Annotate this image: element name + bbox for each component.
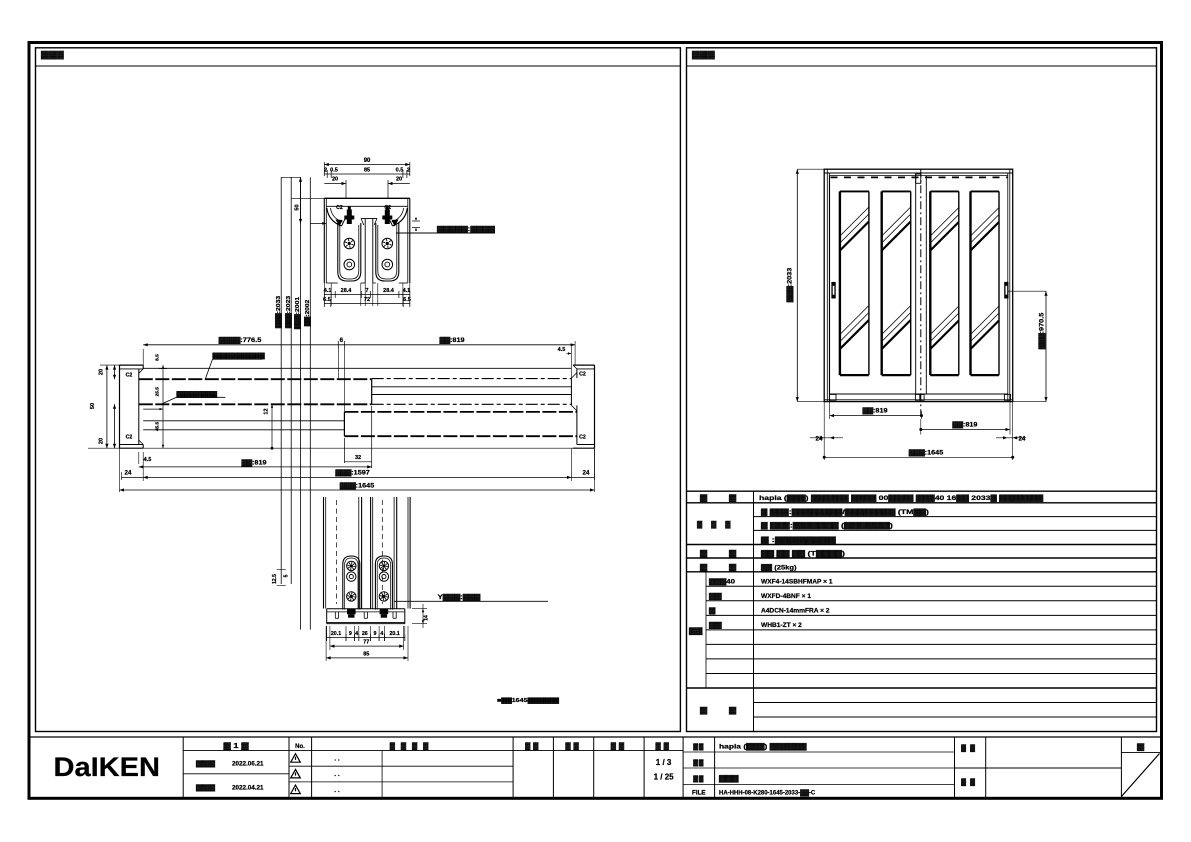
svg-text:Y▓▓▓:▓▓▓: Y▓▓▓:▓▓▓: [438, 594, 481, 601]
svg-text:▓▓▓:2033: ▓▓▓:2033: [787, 267, 794, 302]
svg-text:▓▓: ▓▓: [693, 742, 704, 750]
svg-text:45.5: 45.5: [154, 422, 160, 432]
svg-text:24: 24: [583, 470, 590, 477]
svg-text:25.5: 25.5: [154, 387, 160, 397]
svg-text:▓▓:2002: ▓▓:2002: [304, 300, 311, 327]
svg-text:. .: . .: [334, 771, 340, 778]
svg-text:14: 14: [424, 615, 430, 621]
svg-text:20: 20: [396, 177, 402, 183]
svg-text:hapia (▓▓▓) ▓▓▓▓▓▓: hapia (▓▓▓) ▓▓▓▓▓▓: [719, 742, 807, 750]
svg-text:▓ ▓▓▓:▓▓▓▓▓▓▓▓/▓▓▓▓▓▓▓▓ (TM▓▓): ▓ ▓▓▓:▓▓▓▓▓▓▓▓/▓▓▓▓▓▓▓▓ (TM▓▓): [761, 508, 929, 516]
svg-text:▓▓▓: ▓▓▓: [719, 774, 739, 782]
svg-text:50: 50: [90, 403, 96, 409]
svg-text:9: 9: [349, 631, 352, 637]
svg-text:▓▓▓▓▓▓▓▓▓: ▓▓▓▓▓▓▓▓▓: [213, 353, 266, 360]
svg-text:20: 20: [99, 369, 105, 375]
svg-text:2: 2: [407, 168, 410, 174]
svg-text:4.1: 4.1: [403, 288, 411, 294]
svg-text:C2: C2: [336, 205, 343, 211]
svg-text:▓▓▓:2001: ▓▓▓:2001: [294, 296, 301, 329]
svg-text:▓: ▓: [700, 707, 708, 715]
svg-text:▓: ▓: [729, 494, 737, 502]
svg-text:77: 77: [363, 640, 369, 646]
svg-text:HA-HHH-08-K280-1645-2033-▓▓-C: HA-HHH-08-K280-1645-2033-▓▓-C: [719, 789, 816, 796]
svg-text:▓▓▓: ▓▓▓: [692, 50, 715, 60]
svg-text:▓▓: ▓▓: [961, 744, 979, 752]
svg-text:▓▓▓▓▓:▓▓▓▓: ▓▓▓▓▓:▓▓▓▓: [437, 226, 495, 233]
svg-text:8.5: 8.5: [154, 354, 160, 361]
svg-text:24: 24: [125, 470, 132, 477]
svg-text:4: 4: [380, 631, 383, 637]
svg-text:0.5: 0.5: [330, 168, 338, 174]
svg-text:▓▓: ▓▓: [709, 621, 722, 629]
svg-text:4.1: 4.1: [324, 288, 332, 294]
svg-text:▓▓▓:1645: ▓▓▓:1645: [909, 450, 944, 457]
svg-text:4: 4: [355, 631, 358, 637]
svg-text:4.5: 4.5: [558, 347, 566, 353]
svg-text:1 / 25: 1 / 25: [654, 773, 675, 782]
svg-text:▓: ▓: [729, 563, 737, 571]
svg-text:7: 7: [365, 288, 368, 294]
svg-text:90: 90: [364, 158, 371, 164]
svg-text:85: 85: [363, 651, 369, 657]
svg-text:▓: ▓: [729, 707, 737, 715]
svg-text:2: 2: [324, 168, 327, 174]
svg-text:■▓▓1645▓▓▓▓▓▓: ■▓▓1645▓▓▓▓▓▓: [497, 697, 560, 704]
svg-text:▓▓:819: ▓▓:819: [952, 422, 978, 429]
svg-text:No.: No.: [295, 744, 305, 750]
svg-text:A4DCN-14mmFRA × 2: A4DCN-14mmFRA × 2: [761, 608, 830, 615]
svg-text:▓▓: ▓▓: [693, 758, 704, 766]
svg-text:▓▓: ▓▓: [611, 742, 627, 750]
svg-text:▓ 1 ▓: ▓ 1 ▓: [224, 742, 250, 750]
svg-text:C2: C2: [384, 205, 391, 211]
svg-text:▓▓▓: ▓▓▓: [196, 760, 215, 768]
svg-text:▓▓▓▓: ▓▓▓▓: [390, 742, 434, 750]
svg-text:▓▓ ▓▓ ▓▓ (T▓▓▓▓): ▓▓ ▓▓ ▓▓ (T▓▓▓▓): [761, 550, 845, 558]
svg-text:85: 85: [364, 168, 370, 174]
svg-text:▓: ▓: [729, 550, 737, 558]
svg-text:▓▓▓:2023: ▓▓▓:2023: [285, 295, 292, 328]
svg-text:6.5: 6.5: [403, 297, 411, 303]
svg-text:▓: ▓: [700, 494, 708, 502]
svg-text:28.4: 28.4: [341, 288, 353, 294]
svg-text:▓▓: ▓▓: [709, 592, 722, 600]
svg-text:▓▓▓:2033: ▓▓▓:2033: [275, 295, 282, 328]
svg-text:C2: C2: [579, 372, 586, 378]
svg-text:▓▓▓: ▓▓▓: [196, 784, 215, 792]
svg-text:▓▓▓:1645: ▓▓▓:1645: [340, 483, 375, 490]
svg-text:2022.04.21: 2022.04.21: [232, 785, 264, 792]
svg-text:WXFD-4BNF × 1: WXFD-4BNF × 1: [761, 593, 811, 600]
svg-text:▓▓:819: ▓▓:819: [242, 460, 268, 467]
svg-text:1 / 3: 1 / 3: [656, 758, 672, 767]
svg-text:▓▓▓:1597: ▓▓▓:1597: [335, 470, 370, 477]
svg-text:▓▓▓▓▓▓▓: ▓▓▓▓▓▓▓: [177, 391, 219, 398]
svg-text:▓▓▓: ▓▓▓: [697, 521, 739, 529]
svg-text:6: 6: [340, 337, 344, 344]
svg-text:4.5: 4.5: [144, 457, 152, 463]
svg-text:hapia (▓▓▓) ▓▓▓▓▓▓ ▓▓▓▓ 00▓▓▓▓: hapia (▓▓▓) ▓▓▓▓▓▓ ▓▓▓▓ 00▓▓▓▓ ▓▓▓40 16▓…: [759, 494, 1043, 502]
svg-text:24: 24: [1018, 436, 1025, 443]
svg-text:20.1: 20.1: [331, 631, 341, 637]
svg-text:20.1: 20.1: [389, 631, 399, 637]
svg-text:6.5: 6.5: [323, 297, 331, 303]
svg-text:50: 50: [294, 204, 300, 210]
svg-text:▓▓▓: ▓▓▓: [41, 50, 64, 60]
svg-text:. .: . .: [334, 787, 340, 794]
svg-text:DaIKEN: DaIKEN: [53, 752, 159, 782]
svg-text:▓▓: ▓▓: [565, 742, 581, 750]
svg-text:26: 26: [362, 631, 368, 637]
svg-text:C2: C2: [126, 435, 133, 441]
svg-text:▓▓ (25kg): ▓▓ (25kg): [761, 564, 797, 572]
svg-text:▓▓: ▓▓: [693, 774, 704, 782]
svg-text:▓: ▓: [700, 550, 708, 558]
svg-text:▓▓:819: ▓▓:819: [863, 408, 889, 415]
svg-text:12.5: 12.5: [272, 574, 278, 584]
svg-text:32: 32: [355, 455, 361, 461]
svg-text:▓▓▓▓:776.5: ▓▓▓▓:776.5: [219, 337, 262, 344]
svg-text:▓▓▓:970.5: ▓▓▓:970.5: [1039, 312, 1046, 349]
svg-text:▓▓: ▓▓: [689, 627, 703, 635]
svg-text:0.5: 0.5: [396, 168, 404, 174]
svg-text:▓: ▓: [709, 607, 716, 615]
svg-text:WXF4-14SBHFMAP × 1: WXF4-14SBHFMAP × 1: [761, 579, 833, 586]
svg-text:. .: . .: [334, 756, 340, 763]
svg-text:C2: C2: [579, 435, 586, 441]
svg-text:20: 20: [332, 177, 338, 183]
svg-text:▓: ▓: [1137, 743, 1145, 751]
svg-text:▓▓:819: ▓▓:819: [440, 337, 466, 344]
svg-text:▓ :▓▓▓▓▓▓▓▓: ▓ :▓▓▓▓▓▓▓▓: [761, 536, 836, 544]
svg-text:12: 12: [264, 408, 270, 414]
svg-text:FILE: FILE: [692, 789, 706, 796]
svg-text:▓▓▓40: ▓▓▓40: [709, 578, 736, 586]
svg-text:▓▓: ▓▓: [525, 742, 541, 750]
svg-text:▓▓: ▓▓: [961, 778, 979, 786]
svg-text:▓: ▓: [700, 563, 708, 571]
svg-text:5: 5: [284, 574, 290, 577]
svg-text:28.4: 28.4: [383, 288, 395, 294]
svg-text:▓ ▓▓▓:▓▓▓▓▓▓▓ (▓▓▓▓▓▓▓): ▓ ▓▓▓:▓▓▓▓▓▓▓ (▓▓▓▓▓▓▓): [761, 522, 893, 530]
svg-text:72: 72: [364, 297, 370, 303]
svg-text:24: 24: [816, 436, 823, 443]
svg-text:C2: C2: [126, 373, 133, 379]
svg-text:9: 9: [374, 631, 377, 637]
svg-text:WHB1-ZT × 2: WHB1-ZT × 2: [761, 622, 802, 629]
svg-text:20: 20: [99, 438, 105, 444]
svg-text:▓▓: ▓▓: [655, 742, 671, 750]
svg-text:2022.06.21: 2022.06.21: [232, 761, 264, 768]
